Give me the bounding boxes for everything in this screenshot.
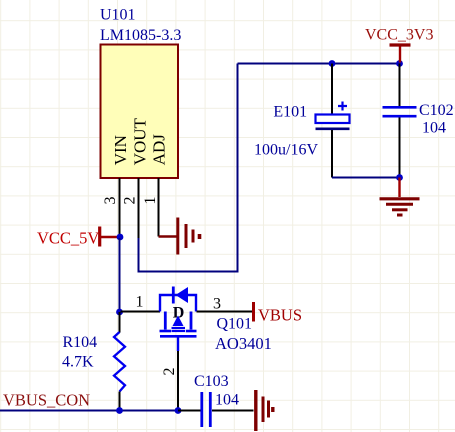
svg-text:104: 104 [422,120,446,137]
svg-text:3: 3 [102,197,119,205]
ground (ADJ pin) [159,218,200,255]
svg-text:R104: R104 [63,334,98,351]
svg-text:VCC_5V: VCC_5V [37,229,99,248]
svg-text:ADJ: ADJ [150,134,169,166]
junction Q101 pin2 [175,407,182,414]
power port VCC_5V [37,227,118,248]
svg-text:1: 1 [136,294,144,311]
wire VOUT to top rail [139,64,238,272]
wire E101 bottom to C102 bottom [332,177,400,179]
power port VBUS [254,302,303,325]
svg-text:100u/16V: 100u/16V [254,142,318,159]
transistor Q101 [121,287,253,411]
body diode loop [160,295,196,312]
power port VCC_3V3 [365,27,433,63]
wire VBUS_CON [0,410,180,412]
gate bar [160,335,197,338]
body diode triangle [176,287,189,303]
ground (bottom right) [256,390,273,431]
wire VIN down [119,238,121,312]
svg-text:VBUS_CON: VBUS_CON [3,391,90,410]
pin 1 (ADJ) [158,178,160,237]
svg-text:104: 104 [215,392,239,409]
svg-text:C102: C102 [419,102,454,119]
svg-text:3: 3 [213,296,221,313]
capacitor C103 [178,392,254,427]
pin 1 wire [121,311,161,313]
svg-text:C103: C103 [194,373,229,390]
pin 3 (VIN) [119,178,121,238]
svg-text:2: 2 [122,197,139,205]
svg-text:E101: E101 [273,103,307,120]
svg-text:LM1085-3.3: LM1085-3.3 [100,27,181,44]
svg-text:4.7K: 4.7K [62,354,94,371]
junction E101 top [329,60,336,67]
svg-text:VBUS: VBUS [258,306,302,325]
svg-text:2: 2 [161,368,178,376]
svg-text:U101: U101 [100,7,136,24]
body diode cathode bar [172,287,175,304]
svg-text:AO3401: AO3401 [215,334,272,353]
right contact [190,312,193,330]
wire top rail [238,63,400,65]
svg-text:Q101: Q101 [217,316,253,333]
junction VCC_5V/VIN [117,234,124,241]
bulk arrow [173,316,184,327]
svg-text:VCC_3V3: VCC_3V3 [365,27,433,44]
pin 2 wire [177,351,179,410]
junction R104 bottom [116,407,123,414]
svg-text:1: 1 [142,197,159,205]
svg-text:VOUT: VOUT [131,117,150,165]
left contact [164,312,167,330]
regulator U101 body [101,45,179,179]
ground (top right) [380,178,420,216]
pin 3 wire [197,311,253,313]
junction ground node [396,174,403,181]
junction gate node [116,309,123,316]
pin 2 (VOUT) [138,178,140,239]
svg-text:VIN: VIN [111,135,130,165]
capacitor E101 [316,64,350,178]
gate stub [177,338,179,352]
resistor R104 [114,312,125,410]
capacitor C102 [383,64,417,178]
junction VCC_3V3 [396,60,403,67]
